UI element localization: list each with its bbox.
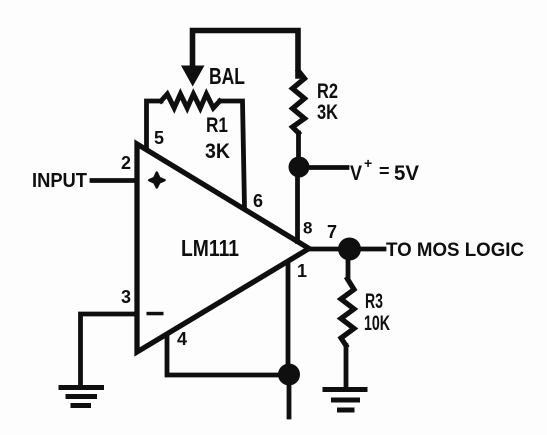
wire pin 3 to ground <box>81 314 138 384</box>
wire R3 to ground <box>344 346 349 388</box>
svg-text:V: V <box>350 161 363 185</box>
wire R2 vertical below zigzag to V+ node <box>296 133 301 167</box>
wire pin 4 to bottom node <box>167 336 289 375</box>
svg-text:5V: 5V <box>394 161 420 185</box>
node bottom junction dot <box>278 364 300 386</box>
wire R1 left vertical to pin 5 <box>147 101 162 148</box>
svg-text:1: 1 <box>297 261 307 281</box>
wire bottom node down <box>287 374 292 417</box>
svg-text:5: 5 <box>154 128 164 148</box>
svg-text:3: 3 <box>121 287 131 307</box>
svg-text:LM111: LM111 <box>181 235 239 261</box>
wire top loop from BAL arrow to R2 top <box>193 31 299 77</box>
op-amp U1 LM111 triangle <box>137 144 309 352</box>
arrow BAL <box>181 66 205 87</box>
minus input symbol <box>147 312 164 316</box>
resistor R3 <box>341 279 354 346</box>
svg-text:TO MOS LOGIC: TO MOS LOGIC <box>386 239 524 261</box>
wire output pin 7 to TO MOS LOGIC <box>309 247 384 252</box>
svg-text:R2: R2 <box>317 80 338 103</box>
svg-text:INPUT: INPUT <box>32 169 87 192</box>
wire output node down to R3 <box>346 249 351 279</box>
node output junction dot <box>338 238 361 261</box>
svg-text:10K: 10K <box>364 312 390 335</box>
svg-text:2: 2 <box>121 153 131 173</box>
ground left <box>61 388 102 406</box>
wire INPUT to pin 2 <box>92 178 137 183</box>
svg-text:+: + <box>364 155 372 171</box>
svg-text:3K: 3K <box>205 140 230 163</box>
svg-text:6: 6 <box>253 191 263 211</box>
node V+ junction dot <box>289 157 310 178</box>
plus input symbol <box>149 173 164 188</box>
wire R1 right vertical to pin 6 <box>220 101 245 208</box>
ground right <box>325 390 365 411</box>
svg-text:=: = <box>379 161 390 181</box>
resistor R1 <box>161 94 220 108</box>
svg-text:4: 4 <box>177 329 187 349</box>
svg-text:8: 8 <box>303 219 312 238</box>
svg-text:7: 7 <box>327 222 337 242</box>
wire V+ node to label <box>299 165 347 170</box>
wire pin 1 down to bottom node <box>286 262 291 374</box>
wire V+ node down to pin 8 <box>295 167 300 242</box>
svg-text:R1: R1 <box>206 114 228 137</box>
svg-text:3K: 3K <box>317 101 338 124</box>
resistor R2 <box>293 71 305 133</box>
svg-text:BAL: BAL <box>209 63 245 89</box>
svg-text:R3: R3 <box>365 290 383 313</box>
